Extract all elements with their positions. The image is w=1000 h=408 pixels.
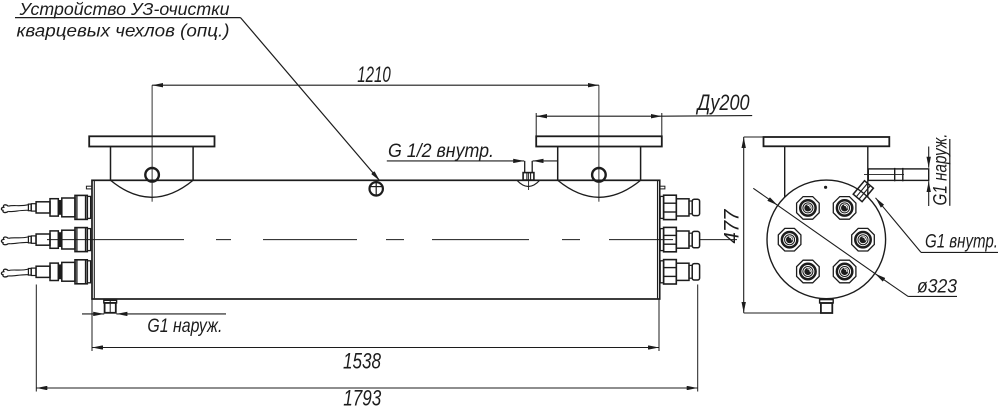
G1 outlet pipe <box>864 168 929 181</box>
svg-text:1793: 1793 <box>343 386 381 408</box>
callout G 1/2 vnutr <box>387 141 558 162</box>
dimension 1793 <box>36 285 697 408</box>
G1 hex fitting on rim <box>853 181 873 202</box>
lamp connector left row 1 <box>1 195 90 219</box>
right nozzle saddle <box>558 180 641 197</box>
callout G1 naruzh bottom <box>82 314 226 337</box>
left nozzle neck <box>110 147 112 181</box>
lamp boss 0deg <box>852 228 875 251</box>
vessel right end cap line <box>657 181 659 298</box>
left wall tick <box>86 186 92 189</box>
svg-text:G1 наруж.: G1 наруж. <box>931 134 952 206</box>
right nozzle center line <box>598 85 600 202</box>
lamp connector right row 1 <box>660 195 699 219</box>
dimension 477 <box>721 137 821 313</box>
dimension 1538 <box>92 299 659 374</box>
svg-text:G 1/2 внутр.: G 1/2 внутр. <box>388 141 494 162</box>
callout G1 vnutr <box>876 198 999 253</box>
svg-text:ø323: ø323 <box>917 276 957 297</box>
lamp connector left row 3 <box>1 260 90 284</box>
svg-text:Ду200: Ду200 <box>695 90 750 115</box>
ultrasonic cleaning fitting <box>369 181 383 197</box>
lamp connector left row 2 <box>1 228 90 252</box>
svg-text:1538: 1538 <box>343 349 381 374</box>
svg-text:Устройство УЗ-очистки: Устройство УЗ-очистки <box>18 0 229 19</box>
dimension Du200 <box>536 90 752 137</box>
left nozzle hole <box>145 168 159 182</box>
left nozzle center line <box>151 85 153 202</box>
svg-text:G1 наруж.: G1 наруж. <box>147 316 222 337</box>
right nozzle flange <box>536 136 662 146</box>
dimension G1 naruzh vertical (right) <box>929 134 952 207</box>
dimension 1210 <box>152 62 599 87</box>
left nozzle saddle <box>111 180 194 197</box>
vessel center line <box>47 239 737 241</box>
lamp boss 240deg <box>797 260 820 283</box>
svg-text:кварцевых чехлов (опц.): кварцевых чехлов (опц.) <box>17 21 230 41</box>
small hole dot <box>824 186 827 189</box>
lamp boss 120deg <box>797 197 820 220</box>
lamp boss 300deg <box>833 260 856 283</box>
lamp connector right row 2 <box>660 227 699 251</box>
vessel shell <box>92 180 660 299</box>
right wall tick <box>660 186 665 189</box>
callout ultrasonic device <box>15 0 380 181</box>
right nozzle hole <box>592 168 606 182</box>
end neck <box>784 146 786 197</box>
vessel left end cap line <box>93 181 95 298</box>
lamp boss 60deg <box>833 197 856 220</box>
svg-text:G1 внутр.: G1 внутр. <box>925 231 998 252</box>
lamp connector right row 3 <box>660 260 699 284</box>
side drain fitting <box>104 300 117 313</box>
svg-text:1210: 1210 <box>357 62 391 87</box>
end flange <box>764 137 890 146</box>
end drain fitting <box>820 300 834 313</box>
dimension dia 323 <box>753 188 957 297</box>
end shell circle <box>767 180 886 299</box>
svg-text:477: 477 <box>721 208 744 243</box>
left nozzle flange <box>89 136 214 146</box>
G 1/2 fitting on top <box>517 161 540 190</box>
lamp boss 180deg <box>778 228 801 251</box>
right nozzle neck <box>557 147 559 181</box>
